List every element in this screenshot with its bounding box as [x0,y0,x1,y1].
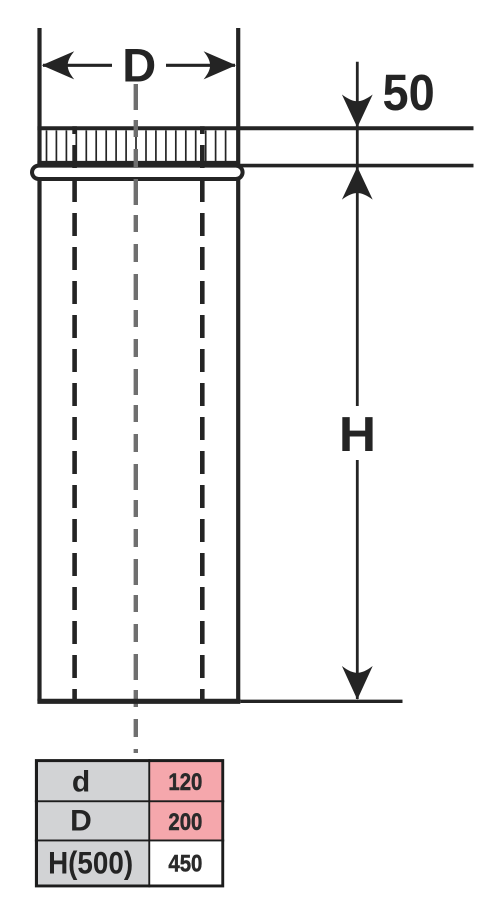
collar line to H arrow [237,164,474,168]
bottom extension line to H arrow [240,700,402,703]
crimp band top line [37,126,473,130]
dimension D shaft right [166,64,235,67]
pipe bottom line [37,699,240,704]
inner diameter dashed line left [72,126,77,699]
svg-text:50: 50 [383,65,435,121]
table cell 120 (pink) [149,760,223,801]
bead (rolled rim) [32,166,243,179]
table cell d (gray) [36,760,150,801]
dimension line vertical (50 and H upper) [356,62,359,406]
pipe left wall / D extension line [37,28,41,701]
table cell D (gray) [36,801,150,840]
table cell 450 (white) [149,841,223,887]
table outer border [37,761,223,886]
svg-text:D: D [70,805,92,838]
svg-text:H: H [339,406,376,462]
svg-text:200: 200 [168,809,202,836]
H up arrow [342,167,373,200]
svg-text:450: 450 [168,851,202,878]
dimension D right arrow [204,51,236,79]
50 down arrow [342,95,373,128]
table cell 200 (pink) [149,801,223,840]
svg-text:120: 120 [168,769,202,796]
svg-text:H(500): H(500) [48,845,133,881]
table cell H(500) (gray) [36,841,150,887]
pipe right wall / D extension line [236,28,240,701]
H down arrow [342,666,373,700]
centerline [134,84,138,753]
inner diameter dashed line right [200,126,205,699]
dimension line vertical (H lower) [356,460,359,699]
dimension D shaft left [43,64,112,67]
dimension D left arrow [42,51,74,79]
crimp band bottom line [37,161,239,165]
svg-text:D: D [122,39,156,92]
crimp hatch lines [47,130,226,161]
svg-text:d: d [72,766,90,799]
